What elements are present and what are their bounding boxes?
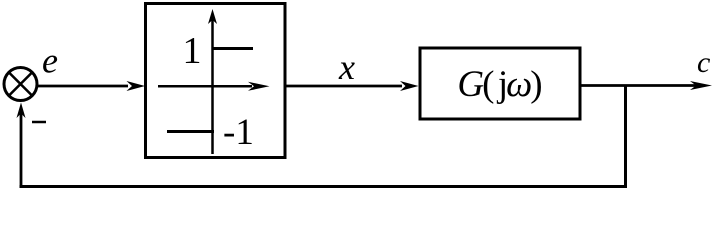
label e: [42, 41, 58, 81]
relay horizontal axis: [158, 82, 270, 91]
feedback rise wire to summing junction: [17, 103, 26, 188]
svg-text:e: e: [42, 41, 58, 81]
wire G block to output c: [582, 81, 713, 90]
block G(jw): [420, 48, 580, 119]
summing junction: [4, 68, 37, 101]
minus sign at feedback input: [32, 121, 46, 124]
relay label 1: [183, 30, 202, 72]
svg-text:-1: -1: [223, 112, 254, 153]
wire relay block to G block, node x: [287, 81, 419, 91]
label G(jw): [457, 64, 541, 105]
relay label -1: [223, 112, 254, 153]
feedback bottom wire: [20, 185, 628, 188]
relay block N: [146, 4, 286, 158]
relay lower step: [167, 130, 214, 133]
label c: [697, 46, 710, 79]
svg-text:1: 1: [183, 30, 202, 72]
wire summing junction to relay block: [38, 81, 146, 91]
relay upper step: [214, 47, 254, 50]
label x: [338, 47, 355, 87]
relay vertical axis: [208, 9, 217, 154]
svg-text:G( jω): G( jω): [457, 64, 541, 105]
svg-text:c: c: [697, 46, 710, 79]
svg-text:x: x: [338, 47, 355, 87]
feedback takeoff wire down from output: [624, 86, 627, 189]
